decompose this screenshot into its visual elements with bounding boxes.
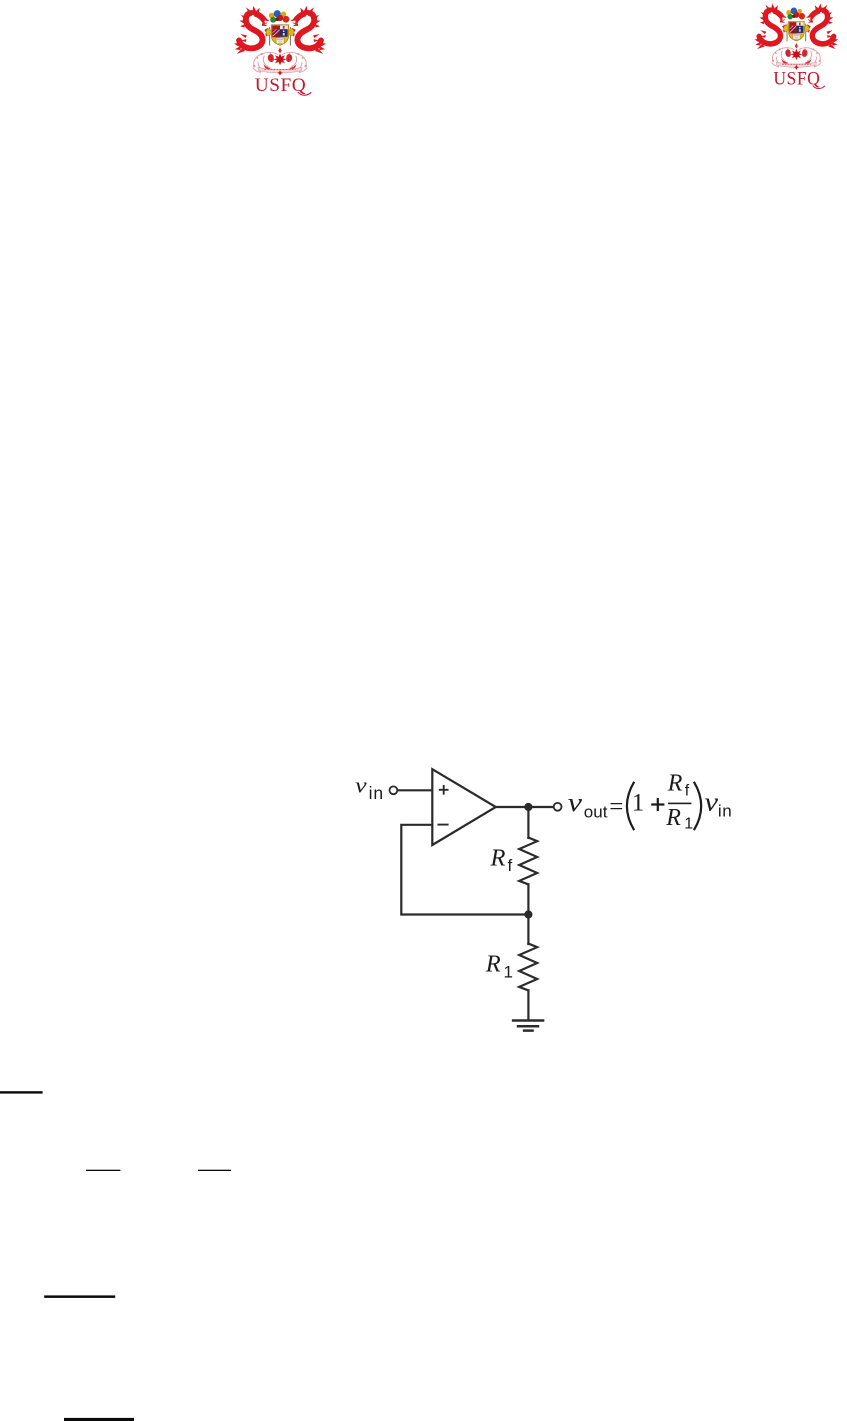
wire output node to resistor Rf xyxy=(527,807,529,838)
svg-text:1: 1 xyxy=(632,790,645,817)
resistor Rf xyxy=(519,838,537,885)
svg-text:R: R xyxy=(665,805,681,831)
svg-text:in: in xyxy=(718,802,732,821)
wire feedback: - input to node A xyxy=(401,825,527,915)
node vout output terminal xyxy=(554,803,562,811)
svg-text:=: = xyxy=(609,794,623,821)
plus sign xyxy=(651,798,664,811)
svg-text:1: 1 xyxy=(504,963,513,982)
big left parenthesis xyxy=(627,782,634,830)
op-amp U1 xyxy=(432,769,496,845)
svg-text:R: R xyxy=(490,844,506,871)
op-amp + input pin mark xyxy=(440,786,448,794)
svg-text:R: R xyxy=(485,950,501,977)
wire R1 to ground xyxy=(527,990,529,1020)
rule line 3 xyxy=(44,1295,115,1298)
svg-text:R: R xyxy=(667,770,683,796)
svg-text:in: in xyxy=(369,783,384,803)
wire node A to resistor R1 xyxy=(527,915,529,945)
svg-text:v: v xyxy=(705,788,719,817)
fraction bar line 2a xyxy=(86,1170,120,1171)
node vin input terminal xyxy=(390,786,398,794)
wire Rf to node A xyxy=(527,884,529,914)
node: output junction dot xyxy=(524,803,532,811)
ground xyxy=(513,1021,543,1031)
big right parenthesis xyxy=(694,782,701,830)
op-amp - input pin mark xyxy=(438,824,447,826)
node A junction dot xyxy=(524,910,532,918)
USFQ logo right xyxy=(755,3,839,88)
fraction bar line 2b xyxy=(198,1170,231,1171)
svg-text:f: f xyxy=(508,856,513,875)
svg-text:out: out xyxy=(584,803,608,822)
rule line 4 xyxy=(64,1418,134,1421)
svg-text:f: f xyxy=(685,782,690,799)
svg-text:v: v xyxy=(355,773,367,798)
wire op-amp output to vout terminal xyxy=(496,806,553,808)
fraction bar xyxy=(668,803,691,805)
svg-text:v: v xyxy=(568,788,583,817)
svg-text:1: 1 xyxy=(684,815,693,832)
wire vin terminal to op-amp + input xyxy=(398,789,431,791)
resistor R1 xyxy=(519,944,537,991)
USFQ logo left xyxy=(234,6,326,96)
rule line 1 xyxy=(0,1091,43,1093)
